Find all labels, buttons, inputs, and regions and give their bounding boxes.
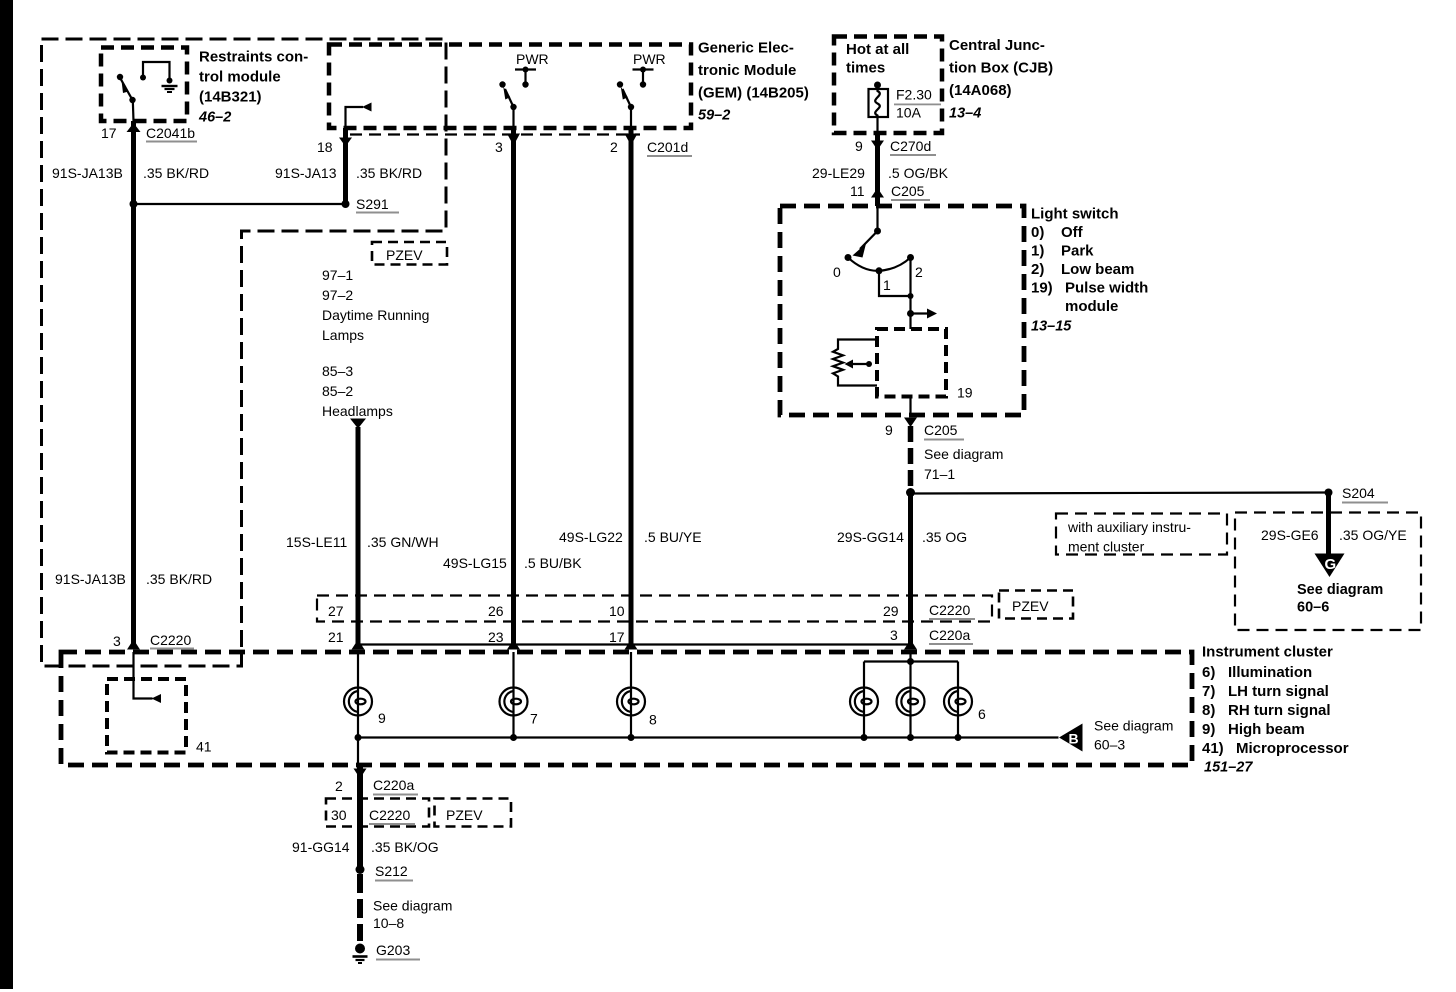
contact 2 link bbox=[909, 258, 911, 330]
svg-text:41): 41) bbox=[1202, 740, 1224, 757]
wire 29S-GE6 bbox=[1326, 493, 1331, 555]
svg-text:59–2: 59–2 bbox=[698, 108, 730, 124]
svg-text:C2041b: C2041b bbox=[146, 125, 195, 141]
svg-text:.35 BK/RD: .35 BK/RD bbox=[143, 165, 209, 181]
thin dashed line below GEM bbox=[350, 133, 640, 135]
lamp 8 (RH turn signal) bbox=[617, 688, 645, 716]
splice S204 dot bbox=[1325, 489, 1333, 497]
illumination lamp center bbox=[897, 688, 925, 716]
harness boundary polygon P1 bbox=[42, 39, 447, 666]
svg-text:60–3: 60–3 bbox=[1094, 737, 1125, 753]
GEM output terminal symbol pin 18 bbox=[346, 107, 364, 128]
svg-text:29S-GG14: 29S-GG14 bbox=[837, 529, 904, 545]
svg-text:C205: C205 bbox=[891, 183, 925, 199]
link junction dot bbox=[908, 293, 914, 299]
arrowhead wire 21 bbox=[352, 640, 365, 650]
svg-text:Pulse width: Pulse width bbox=[1065, 280, 1148, 297]
svg-text:C2220: C2220 bbox=[929, 602, 970, 618]
internal ground symbol bbox=[162, 86, 178, 92]
svg-text:Light switch: Light switch bbox=[1031, 206, 1119, 223]
svg-text:S212: S212 bbox=[375, 863, 408, 879]
svg-text:C270d: C270d bbox=[890, 138, 931, 154]
wire arrowhead at C220a bottom bbox=[354, 769, 367, 779]
svg-text:Illumination: Illumination bbox=[1228, 664, 1312, 681]
switch arm arrowhead bbox=[853, 244, 867, 258]
svg-text:10–8: 10–8 bbox=[373, 915, 404, 931]
splice wire to S291 bbox=[134, 203, 346, 205]
relay switch pivot lead bbox=[132, 100, 135, 121]
svg-text:91S-JA13B: 91S-JA13B bbox=[52, 165, 123, 181]
svg-text:Lamps: Lamps bbox=[322, 327, 364, 343]
svg-text:.35 BK/RD: .35 BK/RD bbox=[356, 165, 422, 181]
svg-text:C220a: C220a bbox=[373, 777, 414, 793]
svg-text:PZEV: PZEV bbox=[1012, 598, 1049, 614]
switch output lead bbox=[909, 397, 911, 416]
svg-text:ment cluster: ment cluster bbox=[1068, 539, 1145, 555]
wire arrowhead at C205 bbox=[871, 188, 884, 198]
svg-text:Hot at all: Hot at all bbox=[846, 41, 909, 58]
output branch arrow right bbox=[911, 312, 929, 314]
svg-text:RH turn signal: RH turn signal bbox=[1228, 702, 1331, 719]
illumination lamp left bbox=[850, 688, 878, 716]
svg-text:See diagram: See diagram bbox=[1094, 718, 1173, 734]
svg-text:15S-LE11: 15S-LE11 bbox=[286, 534, 347, 550]
microprocessor box 41 bbox=[107, 679, 186, 753]
svg-text:3: 3 bbox=[113, 633, 121, 649]
S204 branch harness box bbox=[1235, 513, 1421, 631]
svg-text:trol module: trol module bbox=[199, 69, 281, 86]
svg-text:(GEM) (14B205): (GEM) (14B205) bbox=[698, 85, 809, 102]
svg-text:(14B321): (14B321) bbox=[199, 89, 262, 106]
svg-text:13–4: 13–4 bbox=[949, 106, 981, 122]
PWR switch 2 arm bbox=[623, 89, 632, 107]
switch arm bbox=[860, 231, 878, 249]
connector C220a line bbox=[358, 643, 911, 645]
svg-text:F2.30: F2.30 bbox=[896, 87, 932, 103]
illumination feed lead bbox=[909, 652, 911, 688]
svg-text:18: 18 bbox=[317, 139, 333, 155]
svg-text:49S-LG15: 49S-LG15 bbox=[443, 555, 507, 571]
relay coil bracket bbox=[143, 62, 170, 81]
splice S212 dot bbox=[356, 865, 365, 874]
svg-text:High beam: High beam bbox=[1228, 721, 1305, 738]
wire 29S-GG14 solid section bbox=[908, 493, 913, 649]
svg-text:module: module bbox=[1065, 298, 1118, 315]
svg-text:times: times bbox=[846, 60, 885, 77]
coil terminal dot left bbox=[140, 75, 146, 81]
svg-text:Daytime Running: Daytime Running bbox=[322, 307, 429, 323]
svg-text:11: 11 bbox=[850, 183, 865, 199]
svg-text:30: 30 bbox=[331, 807, 347, 823]
svg-text:6: 6 bbox=[978, 706, 986, 722]
svg-text:with auxiliary instru-: with auxiliary instru- bbox=[1067, 519, 1191, 535]
svg-text:0: 0 bbox=[833, 264, 841, 280]
svg-text:19): 19) bbox=[1031, 280, 1053, 297]
wire arrowhead at C205 lower bbox=[904, 418, 917, 428]
switch pivot dot bbox=[874, 228, 881, 235]
potentiometer wiper bbox=[866, 361, 872, 367]
svg-text:(14A068): (14A068) bbox=[949, 82, 1012, 99]
PZEV tag box bottom bbox=[435, 799, 512, 827]
wire 91-GG14 vertical bbox=[357, 766, 363, 870]
potentiometer resistor bbox=[833, 340, 877, 386]
wire arrowhead at C270d bbox=[871, 141, 884, 151]
svg-text:97–2: 97–2 bbox=[322, 287, 353, 303]
svg-text:1: 1 bbox=[883, 277, 891, 293]
splice S291 dot bbox=[342, 200, 350, 208]
connector C2220 row box bbox=[317, 596, 992, 622]
relay switch pivot dot bbox=[129, 97, 135, 103]
svg-text:Low beam: Low beam bbox=[1061, 261, 1134, 278]
wire 91S-JA13 vertical bbox=[343, 128, 348, 204]
wire arrowhead at C2041b bbox=[127, 123, 141, 132]
svg-text:2): 2) bbox=[1031, 261, 1044, 278]
bus junction dots bbox=[355, 734, 962, 741]
svg-text:29S-GE6: 29S-GE6 bbox=[1261, 527, 1319, 543]
svg-text:3: 3 bbox=[890, 627, 898, 643]
svg-text:29: 29 bbox=[883, 603, 899, 619]
splice junction dot on wire 1 bbox=[130, 200, 138, 208]
wire to S204 bbox=[911, 493, 1329, 494]
svg-text:Park: Park bbox=[1061, 243, 1094, 260]
svg-text:S204: S204 bbox=[1342, 485, 1375, 501]
svg-text:46–2: 46–2 bbox=[198, 110, 231, 126]
instrument cluster box bbox=[61, 652, 1192, 765]
svg-text:.5 BU/YE: .5 BU/YE bbox=[644, 529, 702, 545]
GEM label bbox=[698, 40, 809, 124]
svg-text:2: 2 bbox=[610, 139, 618, 155]
wire 49S-LG15 vertical bbox=[511, 128, 516, 648]
lamp return drops bbox=[358, 716, 958, 738]
svg-text:C2220: C2220 bbox=[369, 807, 410, 823]
lamp 9 lead bbox=[357, 652, 359, 688]
lamp 7 (LH turn signal) bbox=[500, 688, 528, 716]
svg-text:91-GG14: 91-GG14 bbox=[292, 839, 350, 855]
svg-text:13–15: 13–15 bbox=[1031, 319, 1072, 335]
svg-text:See diagram: See diagram bbox=[1297, 582, 1383, 598]
switch feed lead bbox=[876, 206, 878, 231]
svg-text:10: 10 bbox=[609, 603, 625, 619]
wire arrowhead pin 3 bbox=[507, 134, 520, 146]
svg-text:85–2: 85–2 bbox=[322, 383, 353, 399]
svg-text:21: 21 bbox=[328, 629, 344, 645]
svg-text:PZEV: PZEV bbox=[446, 807, 483, 823]
svg-text:.5 OG/BK: .5 OG/BK bbox=[888, 165, 949, 181]
relay switch arm arrowhead bbox=[122, 81, 129, 94]
svg-text:PZEV: PZEV bbox=[386, 247, 423, 263]
svg-text:8): 8) bbox=[1202, 702, 1215, 719]
svg-text:10A: 10A bbox=[896, 105, 922, 121]
svg-text:0): 0) bbox=[1031, 224, 1044, 241]
svg-text:6): 6) bbox=[1202, 664, 1215, 681]
restraints module label bbox=[198, 49, 308, 126]
svg-text:G: G bbox=[1325, 556, 1337, 573]
svg-text:C2220: C2220 bbox=[150, 632, 191, 648]
svg-text:.35 OG: .35 OG bbox=[922, 529, 967, 545]
PWR switch 1 arm bbox=[505, 89, 514, 107]
contact 1 link bbox=[879, 271, 911, 296]
PWR switch 1 lead bbox=[512, 107, 514, 128]
svg-text:91S-JA13B: 91S-JA13B bbox=[55, 571, 126, 587]
generic electronic module box (GEM) bbox=[329, 45, 691, 129]
with auxiliary instrument cluster box bbox=[1056, 514, 1227, 555]
svg-text:17: 17 bbox=[609, 629, 625, 645]
PWR switch 1 T symbol bbox=[515, 68, 536, 70]
illumination bar drop right bbox=[957, 662, 959, 688]
wire 91S-JA13B vertical bbox=[131, 121, 136, 648]
svg-text:Central Junc-: Central Junc- bbox=[949, 37, 1045, 54]
svg-text:9: 9 bbox=[855, 138, 863, 154]
svg-text:9): 9) bbox=[1202, 721, 1215, 738]
see-diagram text daytime running lamps bbox=[322, 267, 429, 343]
PWR switch 1 pivot dot bbox=[510, 104, 516, 110]
wire arrowhead pin 18 bbox=[339, 138, 352, 147]
svg-text:2: 2 bbox=[335, 778, 343, 794]
svg-text:27: 27 bbox=[328, 603, 344, 619]
svg-text:.35 BK/OG: .35 BK/OG bbox=[371, 839, 439, 855]
svg-text:.35 GN/WH: .35 GN/WH bbox=[367, 534, 439, 550]
wire 15S-LE11 vertical bbox=[356, 427, 361, 648]
svg-text:Microprocessor: Microprocessor bbox=[1236, 740, 1349, 757]
PWR switch 2 contact dot bbox=[617, 81, 623, 87]
relay switch contact dot bbox=[117, 74, 123, 80]
svg-text:PWR: PWR bbox=[633, 51, 666, 67]
junction dot to S204 bbox=[906, 488, 915, 497]
PWR switch 2 pivot dot bbox=[628, 104, 634, 110]
lamp 7 lead bbox=[512, 652, 514, 688]
connector 30 C2220 box bbox=[326, 799, 429, 827]
PZEV tag box right bbox=[999, 591, 1073, 619]
wire arrowhead pin 2 bbox=[625, 134, 638, 146]
lamp 9 (high beam) bbox=[344, 688, 372, 716]
PWR switch 2 T symbol bbox=[633, 68, 654, 70]
svg-text:tronic Module: tronic Module bbox=[698, 62, 796, 79]
svg-text:C205: C205 bbox=[924, 422, 958, 438]
svg-text:Instrument cluster: Instrument cluster bbox=[1202, 644, 1333, 661]
instrument cluster legend bbox=[1202, 644, 1349, 776]
svg-text:B: B bbox=[1069, 731, 1079, 747]
svg-text:Generic Elec-: Generic Elec- bbox=[698, 40, 794, 57]
pulse width module box 19 bbox=[877, 329, 946, 397]
central junction box (hot at all times) bbox=[834, 37, 942, 134]
svg-text:41: 41 bbox=[196, 739, 212, 755]
ground G triangle bbox=[1315, 554, 1345, 578]
restraints control module box (14B321) bbox=[101, 48, 187, 122]
wire 29S-GG14 dashed section bbox=[908, 426, 914, 488]
lamp 8 lead bbox=[630, 652, 632, 688]
fuse F2.30 10A bbox=[869, 82, 889, 134]
svg-text:26: 26 bbox=[488, 603, 504, 619]
svg-text:7): 7) bbox=[1202, 683, 1215, 700]
PZEV tag box upper bbox=[372, 242, 447, 265]
svg-text:8: 8 bbox=[649, 712, 657, 728]
svg-text:See diagram: See diagram bbox=[373, 898, 452, 914]
wire dashed to ground bbox=[357, 874, 363, 941]
svg-text:S291: S291 bbox=[356, 196, 389, 212]
svg-text:2: 2 bbox=[915, 264, 923, 280]
svg-text:LH turn signal: LH turn signal bbox=[1228, 683, 1329, 700]
ground G203 symbol bbox=[353, 944, 368, 964]
svg-text:G203: G203 bbox=[376, 942, 410, 958]
contact 0 dot bbox=[845, 254, 852, 261]
svg-text:.35 OG/YE: .35 OG/YE bbox=[1339, 527, 1407, 543]
svg-text:9: 9 bbox=[885, 422, 893, 438]
svg-text:97–1: 97–1 bbox=[322, 267, 353, 283]
cluster return lead bbox=[357, 738, 359, 766]
contact arc bbox=[848, 258, 911, 271]
relay switch arm bbox=[121, 80, 133, 101]
circuit B triangle bbox=[1059, 724, 1083, 752]
svg-text:1): 1) bbox=[1031, 243, 1044, 260]
wire 29-LE29 vertical bbox=[875, 133, 880, 206]
scan border bar left bbox=[0, 0, 13, 989]
light switch box bbox=[780, 206, 1024, 415]
coil terminal dot right bbox=[167, 78, 173, 84]
svg-text:See diagram: See diagram bbox=[924, 446, 1003, 462]
contact 1 dot bbox=[876, 267, 883, 274]
svg-text:3: 3 bbox=[495, 139, 503, 155]
CJB label bbox=[949, 37, 1053, 122]
PWR switch 2 lead bbox=[630, 107, 632, 128]
svg-text:49S-LG22: 49S-LG22 bbox=[559, 529, 623, 545]
svg-text:151–27: 151–27 bbox=[1204, 760, 1253, 776]
svg-text:Headlamps: Headlamps bbox=[322, 403, 393, 419]
illumination bar drop left bbox=[863, 662, 865, 688]
svg-text:C220a: C220a bbox=[929, 627, 970, 643]
arrowhead wire 3 bbox=[904, 640, 917, 650]
headlamps feed arrowhead bbox=[350, 419, 366, 429]
arrowhead wire 17 bbox=[625, 640, 638, 650]
arrowhead wire 23 bbox=[507, 640, 520, 650]
wire arrowhead into cluster bbox=[127, 640, 140, 650]
see-diagram text headlamps bbox=[322, 363, 393, 419]
svg-text:85–3: 85–3 bbox=[322, 363, 353, 379]
PWR switch 1 contact dot bbox=[499, 81, 505, 87]
illumination bus bar bbox=[864, 660, 958, 662]
svg-text:9: 9 bbox=[378, 710, 386, 726]
svg-text:.5 BU/BK: .5 BU/BK bbox=[524, 555, 582, 571]
svg-text:7: 7 bbox=[530, 711, 538, 727]
svg-text:.35 BK/RD: .35 BK/RD bbox=[146, 571, 212, 587]
svg-text:29-LE29: 29-LE29 bbox=[812, 165, 865, 181]
svg-text:Restraints con-: Restraints con- bbox=[199, 49, 308, 66]
illumination lamp right bbox=[944, 688, 972, 716]
svg-text:60–6: 60–6 bbox=[1297, 600, 1329, 616]
output junction dot bbox=[907, 310, 914, 317]
svg-text:23: 23 bbox=[488, 629, 504, 645]
svg-text:71–1: 71–1 bbox=[924, 466, 955, 482]
svg-text:tion Box (CJB): tion Box (CJB) bbox=[949, 60, 1053, 77]
svg-text:Off: Off bbox=[1061, 224, 1084, 241]
light switch legend bbox=[1031, 206, 1148, 335]
svg-text:91S-JA13: 91S-JA13 bbox=[275, 165, 337, 181]
svg-text:17: 17 bbox=[101, 125, 117, 141]
ground bus bbox=[358, 736, 1059, 738]
contact 2 dot bbox=[907, 254, 914, 261]
svg-text:PWR: PWR bbox=[516, 51, 549, 67]
wire 49S-LG22 vertical bbox=[629, 128, 634, 648]
svg-text:C201d: C201d bbox=[647, 139, 688, 155]
microprocessor input lead bbox=[134, 652, 153, 699]
svg-text:19: 19 bbox=[957, 385, 973, 401]
